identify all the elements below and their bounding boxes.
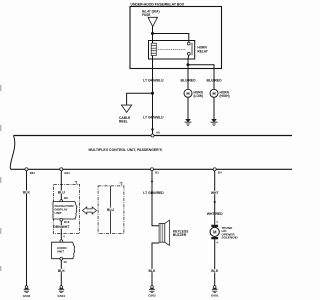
svg-text:WHT/RED: WHT/RED xyxy=(207,212,223,216)
svg-text:SOLENOID: SOLENOID xyxy=(222,236,239,240)
svg-text:LT GRN/BLU: LT GRN/BLU xyxy=(143,115,164,119)
svg-text:B21: B21 xyxy=(65,171,71,175)
dash-dot box *1 xyxy=(54,184,80,233)
wire B21 column to nav unit xyxy=(60,169,62,199)
wire branch to horn high xyxy=(188,65,214,90)
horn high xyxy=(210,89,218,97)
wire label BLU box *2 xyxy=(107,208,113,211)
terminal B21 xyxy=(60,168,63,171)
relay switch blade xyxy=(191,43,193,55)
arrow on trunk wire xyxy=(213,201,216,204)
ground G502 column3 xyxy=(148,286,156,298)
dash-dot box *2 xyxy=(98,186,124,234)
navigation display unit terminal bottom xyxy=(60,218,63,221)
svg-text:G504: G504 xyxy=(23,294,31,298)
svg-text:BLK: BLK xyxy=(149,269,157,273)
relay coil xyxy=(151,43,156,55)
relay contact upper xyxy=(187,42,190,45)
svg-text:BLU: BLU xyxy=(107,208,115,212)
cable reel connector triangle xyxy=(122,105,132,112)
junction dot fuse/relay feed xyxy=(151,32,154,35)
wire label BLU column2 xyxy=(58,191,64,194)
svg-text:BLU/RED: BLU/RED xyxy=(206,79,222,83)
relay dashed link xyxy=(158,48,186,50)
wire branch to cable reel xyxy=(127,93,153,105)
terminal B4 xyxy=(213,168,216,171)
svg-text:B19: B19 xyxy=(64,220,70,224)
terminal A9 xyxy=(151,134,154,137)
svg-text:UNIT: UNIT xyxy=(57,250,64,254)
ground horn low xyxy=(185,119,192,126)
horn low xyxy=(184,89,192,97)
under-hood fuse/relay box xyxy=(130,7,222,69)
svg-text:(LOW): (LOW) xyxy=(194,94,204,98)
wire junction to relay contact xyxy=(153,34,189,43)
relay contact lower xyxy=(187,52,190,55)
svg-text:29: 29 xyxy=(64,260,68,264)
svg-text:B1: B1 xyxy=(155,171,159,175)
wire label BLK column4 xyxy=(212,269,219,272)
wire audio unit to ground xyxy=(60,260,62,286)
ground G504 column2 xyxy=(58,286,66,299)
multiplex control unit left break xyxy=(10,136,15,170)
terminal B1 xyxy=(151,168,154,171)
wire fuse to junction xyxy=(152,27,154,44)
arrow on keyless wire xyxy=(151,181,154,184)
svg-text:*1: *1 xyxy=(75,180,78,184)
svg-text:B4: B4 xyxy=(218,171,222,175)
wire B1 column to keyless buzzer xyxy=(152,169,159,226)
arrow into multiplex unit xyxy=(151,129,154,133)
navigation display unit terminal top xyxy=(60,200,63,203)
svg-text:MULTIPLEX CONTROL UNIT, PASSEN: MULTIPLEX CONTROL UNIT, PASSENGER’S xyxy=(89,148,163,152)
svg-text:GRN/WHT: GRN/WHT xyxy=(53,225,70,229)
svg-text:G601: G601 xyxy=(211,294,219,298)
wire B61 column down to ground xyxy=(26,169,28,285)
relay box outline xyxy=(149,41,195,60)
svg-text:LT GRN/BLU: LT GRN/BLU xyxy=(143,79,164,83)
wire coil bottom down to multiplex unit xyxy=(152,59,154,135)
wire nav unit to audio unit xyxy=(60,221,62,240)
trunk lid opener solenoid xyxy=(210,227,219,236)
ground horn high xyxy=(211,119,218,126)
wire horn low to ground xyxy=(187,97,189,119)
multiplex control unit top edge xyxy=(14,135,293,137)
terminal B61 xyxy=(25,168,28,171)
audio unit xyxy=(52,242,75,259)
svg-text:WHT: WHT xyxy=(211,191,220,195)
audio unit terminal top xyxy=(60,240,63,243)
svg-text:UNDER-HOOD FUSE/RELAY BOX: UNDER-HOOD FUSE/RELAY BOX xyxy=(131,3,185,7)
svg-text:REEL: REEL xyxy=(119,120,128,124)
svg-text:BLU/RED: BLU/RED xyxy=(180,79,196,83)
wire label BLK column1 xyxy=(24,191,30,194)
svg-text:BUZZER: BUZZER xyxy=(173,233,187,237)
svg-text:UNIT: UNIT xyxy=(55,211,62,215)
scan edge marks xyxy=(0,85,2,271)
wire inside box *2 xyxy=(110,186,112,234)
svg-text:A9: A9 xyxy=(156,131,160,135)
solenoid connector bottom xyxy=(211,237,218,239)
ground G601 column4 xyxy=(211,286,219,298)
navigation display unit xyxy=(53,202,77,219)
solenoid connector top xyxy=(211,225,218,227)
ground G504 column1 xyxy=(23,286,31,299)
double arrow xyxy=(83,207,97,214)
wire label BLK column2 xyxy=(58,269,64,272)
junction dot horn branch xyxy=(187,63,190,66)
svg-text:LT GRN/RED: LT GRN/RED xyxy=(143,191,164,195)
svg-text:M: M xyxy=(213,230,217,235)
wire keyless buzzer to ground xyxy=(152,243,159,286)
wire label BLK column3 xyxy=(149,269,155,272)
wire B4 column to solenoid xyxy=(214,169,216,224)
wire solenoid to ground xyxy=(214,239,216,285)
svg-text:BLK: BLK xyxy=(58,269,66,273)
wire label GRN/WHT xyxy=(54,225,69,229)
svg-text:RELAY: RELAY xyxy=(197,49,208,53)
multiplex control unit bottom edge xyxy=(11,168,292,170)
svg-text:B61: B61 xyxy=(30,171,36,175)
svg-text:G504: G504 xyxy=(58,294,66,298)
svg-text:*2: *2 xyxy=(120,182,123,186)
wire contact bottom to horn low xyxy=(187,59,189,89)
svg-text:BLU: BLU xyxy=(58,191,66,195)
wire label WHT xyxy=(212,191,219,194)
svg-text:FUSE: FUSE xyxy=(142,13,151,17)
wire horn high to ground xyxy=(213,97,215,119)
svg-text:B6: B6 xyxy=(64,196,68,200)
audio unit terminal bottom xyxy=(60,257,63,260)
keyless buzzer xyxy=(159,220,169,245)
svg-text:BLK: BLK xyxy=(23,191,31,195)
svg-text:BLK: BLK xyxy=(211,269,219,273)
svg-text:G502: G502 xyxy=(148,294,156,298)
svg-text:(HIGH): (HIGH) xyxy=(220,94,230,98)
fuse No.47 symbol xyxy=(148,17,158,26)
junction dot cable reel branch xyxy=(151,92,154,95)
